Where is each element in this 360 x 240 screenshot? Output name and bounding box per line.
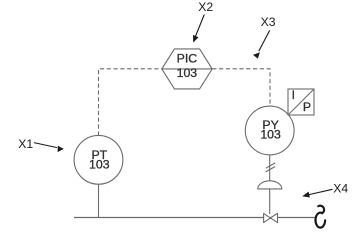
svg-text:X2: X2 xyxy=(198,0,213,14)
valve stem xyxy=(269,189,271,214)
svg-text:PIC: PIC xyxy=(177,51,198,65)
svg-text:103: 103 xyxy=(260,127,281,141)
label X1 xyxy=(18,137,64,152)
I/P converter PY-103 xyxy=(245,106,294,155)
svg-text:X3: X3 xyxy=(261,15,276,29)
label X4 xyxy=(302,182,348,198)
controller PIC-103 (shared display/control hexagon) xyxy=(162,49,212,89)
svg-text:X4: X4 xyxy=(333,182,348,196)
svg-text:I: I xyxy=(292,88,295,102)
svg-text:X1: X1 xyxy=(18,137,33,151)
pneumatic signal hash marks xyxy=(266,163,276,172)
wire: electric signal PIC-103 to PY-103 (dashed) xyxy=(212,69,270,106)
wire: pneumatic signal PY-103 to valve actuator xyxy=(269,155,271,181)
wire: electric signal PT-103 to PIC-103 (dashed) xyxy=(99,69,162,136)
process pipe xyxy=(74,217,316,219)
valve diaphragm actuator xyxy=(258,181,282,189)
svg-text:103: 103 xyxy=(89,157,110,171)
svg-text:P: P xyxy=(303,100,311,114)
label X2 xyxy=(193,0,213,42)
I/P function box on PY-103 xyxy=(288,88,314,115)
svg-text:103: 103 xyxy=(177,66,198,80)
pipe break squiggle xyxy=(316,206,326,228)
label X3 xyxy=(253,15,276,59)
control valve body xyxy=(264,213,278,222)
wire: impulse line from pipe to PT-103 xyxy=(98,184,100,217)
pressure transmitter PT-103 xyxy=(74,135,123,184)
